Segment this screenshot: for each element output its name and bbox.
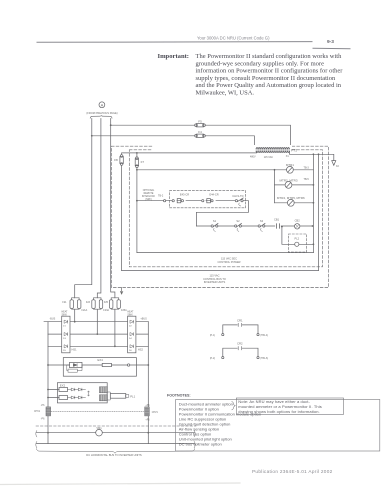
svg-text:supply types, consult Powermon: supply types, consult Powermonitor II do…	[196, 75, 336, 82]
wire EX2 feeds	[48, 390, 59, 398]
wire F4 rail	[92, 136, 255, 147]
wire secondary right to X2	[290, 151, 334, 160]
link CR2	[210, 342, 268, 360]
breaker contact CB1	[274, 217, 280, 228]
node junction right rail bus	[147, 432, 149, 434]
wire PL2 branch	[282, 227, 314, 245]
svg-text:S1: S1	[213, 219, 217, 223]
svg-text:Milwaukee, WI, USA.: Milwaukee, WI, USA.	[196, 90, 255, 97]
svg-text:CHV1-TD: CHV1-TD	[232, 194, 243, 198]
wire rung MTR4/5/6	[275, 202, 314, 204]
svg-text:-P6: -P6	[41, 418, 45, 420]
terminal EX4	[127, 364, 129, 366]
wire left DC rail	[47, 322, 49, 444]
wire bus2 vertical	[97, 119, 101, 298]
wire F8 drop to control bus	[121, 165, 123, 270]
svg-text:HEAT: HEAT	[127, 311, 134, 314]
svg-text:CR2: CR2	[237, 342, 243, 346]
svg-text:X2: X2	[336, 165, 340, 168]
diode EX2 upper pair	[68, 388, 86, 391]
svg-text:MTR4, MTR5, MTR6: MTR4, MTR5, MTR6	[277, 196, 305, 200]
page edge shadow	[0, 483, 240, 485]
node junction interlock tap	[136, 200, 138, 202]
svg-text:(TB1-4): (TB1-4)	[260, 335, 268, 337]
node junction pair1 out	[74, 321, 76, 323]
svg-text:+BUS: +BUS	[140, 318, 147, 321]
svg-text:F23A: F23A	[103, 309, 109, 312]
heat sink bar HS2	[128, 316, 136, 353]
connector block EX2 upper	[99, 387, 107, 393]
svg-text:F5: F5	[198, 120, 202, 124]
svg-text:F23: F23	[86, 301, 91, 304]
node junction EX4 right	[147, 364, 149, 366]
svg-text:F8: F8	[114, 158, 118, 162]
svg-text:(P-1): (P-1)	[210, 335, 215, 337]
svg-text:HS2: HS2	[138, 347, 144, 351]
svg-text:Important:: Important:	[158, 53, 190, 60]
label optional remote interlock	[142, 189, 156, 201]
wire DC horizontal bus line2	[37, 443, 195, 445]
wire CHV1 dotted link	[51, 411, 145, 413]
svg-text:DC bus voltmeter option: DC bus voltmeter option	[179, 442, 222, 447]
svg-text:EX2: EX2	[60, 383, 66, 387]
node junction pair3 out	[114, 345, 116, 347]
fuse F4	[195, 130, 206, 137]
svg-text:HS1: HS1	[72, 347, 78, 351]
transformer PT1	[250, 145, 297, 159]
svg-text:PL2: PL2	[294, 237, 299, 241]
node junction EX4 left	[47, 364, 49, 366]
dashed interlock box	[170, 191, 246, 208]
motor MTR2,MTR3	[280, 178, 298, 188]
node junction PL2 tap	[281, 226, 283, 228]
svg-text:information on Powermonitor II: information on Powermonitor II configura…	[196, 68, 344, 75]
svg-text:OPTIONAL: OPTIONAL	[143, 189, 155, 192]
fuse pair F23/F23A	[86, 298, 110, 334]
wire F5 rail	[111, 125, 291, 146]
svg-text:REMOTE: REMOTE	[144, 193, 154, 195]
svg-text:CHV1: CHV1	[34, 411, 41, 413]
svg-text:S3: S3	[260, 219, 264, 223]
svg-text:MTR1: MTR1	[286, 163, 294, 167]
svg-text:+P6: +P6	[145, 420, 150, 422]
svg-text:PL1: PL1	[130, 394, 135, 398]
svg-text:DC HORIZONTAL BUS TO INVERTER: DC HORIZONTAL BUS TO INVERTER UNITS	[86, 453, 142, 457]
relay contact E43-CR	[172, 192, 189, 202]
switch S3	[258, 219, 265, 231]
svg-text:INVERTER UNITS: INVERTER UNITS	[204, 280, 226, 284]
footnotes list	[179, 401, 261, 446]
node junction F4 tap	[91, 135, 93, 137]
svg-text:X1: X1	[286, 155, 290, 158]
wire EX4 through	[48, 364, 148, 366]
connector block EX2 lower	[99, 395, 107, 401]
svg-text:CB2: CB2	[295, 219, 301, 223]
svg-text:CB1: CB1	[274, 217, 280, 221]
wire DC line2	[48, 333, 148, 335]
svg-text:TB-5: TB-5	[304, 178, 310, 181]
svg-text:TB-3: TB-3	[304, 167, 310, 170]
diode EX4	[70, 362, 83, 367]
svg-text:CHV1: CHV1	[152, 412, 159, 414]
wire interlock return	[196, 201, 248, 226]
node junction rung2 right	[313, 184, 315, 186]
header rule	[37, 41, 312, 44]
bus continuation bracket left	[36, 431, 37, 448]
wire rung MTR2/3	[275, 184, 314, 186]
svg-text:F21: F21	[62, 301, 67, 304]
link CR1	[210, 319, 268, 337]
svg-text:9-3: 9-3	[327, 39, 334, 45]
svg-text:The Powermonitor II standard c: The Powermonitor II standard configurati…	[196, 53, 343, 60]
label HEAT SINK left	[62, 311, 69, 317]
svg-text:Your 3000A DC NRU (Current Cod: Your 3000A DC NRU (Current Code G)	[197, 36, 270, 41]
svg-text:F4: F4	[198, 130, 202, 134]
motor MTR4,MTR5,MTR6	[277, 196, 305, 206]
svg-text:Publication 2364E-5.01 April 2: Publication 2364E-5.01 April 2002	[252, 469, 333, 474]
wire inside interlock	[166, 200, 235, 202]
svg-text:TB-2: TB-2	[158, 195, 164, 198]
svg-text:HEAT: HEAT	[62, 311, 69, 314]
box EX2	[57, 383, 107, 403]
wire secondary left rail to F8	[122, 151, 257, 155]
brace over bus bundle	[90, 115, 112, 118]
fuse pair F21/F21A	[62, 298, 87, 322]
footnotes box	[176, 400, 380, 452]
svg-text:F21A: F21A	[82, 309, 88, 312]
fuse pair F25/F25A	[104, 298, 127, 347]
wire rung MTR1	[137, 169, 314, 171]
connector CHV1 right	[145, 405, 159, 422]
svg-text:-P6: -P6	[41, 405, 45, 407]
bus continuation bracket right	[194, 431, 195, 448]
Important paragraph	[196, 53, 344, 97]
node A	[99, 102, 105, 108]
motor MTR1	[286, 163, 294, 173]
svg-text:A: A	[101, 103, 104, 108]
fuse F7	[135, 153, 144, 168]
wire DC line1	[44, 321, 148, 323]
svg-text:INTERLOCK: INTERLOCK	[142, 196, 156, 198]
node junction left rail bus	[47, 432, 49, 434]
page number underline	[313, 47, 350, 50]
relay contact E44-CR	[202, 192, 219, 202]
box EX4	[63, 358, 136, 377]
svg-text:MTR2, MTR3: MTR2, MTR3	[280, 178, 298, 182]
note box	[236, 398, 343, 414]
plug PL1	[107, 392, 135, 400]
svg-text:S2: S2	[236, 219, 240, 223]
pilot device CB2	[295, 219, 301, 229]
terminal TB2	[164, 200, 166, 202]
node junction pair2 out	[96, 333, 98, 335]
svg-text:and the Power Quality and Auto: and the Power Quality and Automation gro…	[196, 82, 342, 89]
svg-text:F25: F25	[104, 301, 109, 304]
svg-text:EX4: EX4	[98, 358, 104, 362]
middle dashed enclosure	[129, 150, 322, 267]
footnote brace	[232, 402, 236, 410]
node junction rung1 left	[136, 169, 138, 171]
MOV block EX2 upper	[59, 388, 68, 392]
node junction EX2 feed2	[47, 397, 49, 399]
node junction PL2 right	[313, 243, 315, 245]
wire DC horizontal bus line1	[37, 432, 195, 434]
node junction EX2 feed1	[47, 389, 49, 391]
svg-text:CONTROL POWER: CONTROL POWER	[217, 260, 240, 264]
svg-text:F25A: F25A	[121, 309, 127, 312]
dashed option boundary	[36, 425, 196, 427]
resistor EX4 series	[102, 363, 111, 366]
svg-text:PT1: PT1	[291, 148, 297, 152]
switch S1	[211, 219, 218, 231]
heat sink bar HS1	[62, 316, 70, 353]
svg-text:480V: 480V	[250, 155, 256, 158]
timed contact CHV1-TD	[232, 194, 243, 206]
node junction motor sub-bus	[274, 169, 276, 171]
svg-text:(P-2): (P-2)	[210, 358, 215, 360]
node junction rung3 right	[313, 202, 315, 204]
svg-text:CR1: CR1	[237, 319, 243, 323]
svg-text:+P6: +P6	[145, 405, 150, 407]
pilot light PL2	[294, 237, 299, 247]
switch S2	[235, 219, 242, 231]
fuse F8	[114, 155, 123, 166]
svg-text:E44-CR: E44-CR	[209, 192, 218, 196]
outer dashed enclosure	[111, 146, 328, 287]
wire motor sub-bus vertical	[274, 170, 276, 203]
wire switch rung	[196, 225, 313, 227]
bus exit arrow	[120, 288, 122, 295]
ground flag X2	[332, 161, 340, 168]
wire right rail	[312, 154, 314, 252]
svg-text:FOOTNOTES:: FOOTNOTES:	[167, 393, 191, 397]
connector CHV1 left	[34, 405, 51, 421]
svg-text:F7: F7	[141, 160, 145, 164]
arrow EX2 center	[88, 391, 90, 396]
wire interlock rung lead	[137, 200, 164, 202]
svg-text:(TB1-6): (TB1-6)	[260, 358, 268, 360]
node junction control bus right top	[318, 153, 320, 155]
underbrace DC bus	[37, 449, 195, 454]
wire bottom rail	[137, 252, 314, 254]
svg-text:drawing shows both options for: drawing shows both options for informati…	[238, 409, 319, 414]
MOV block EX2 lower	[59, 396, 68, 400]
node junction CB2 right	[312, 225, 314, 227]
wire control bus horizontal	[122, 270, 319, 272]
wire control bus right vertical	[318, 154, 320, 270]
voltmeter VM1	[96, 426, 103, 436]
wire bus3 vertical	[111, 119, 115, 298]
wire left rail	[136, 168, 138, 253]
svg-text:E43-CR: E43-CR	[180, 192, 189, 196]
dashed box PL2 option	[288, 234, 306, 252]
wire bus1 vertical	[75, 119, 92, 298]
node junction F5 tap	[110, 124, 112, 126]
svg-text:115 VAC: 115 VAC	[264, 156, 273, 159]
label HEAT SINK right	[127, 311, 134, 317]
svg-text:VM1: VM1	[96, 426, 102, 430]
fuse F5	[195, 120, 206, 127]
node junction right rail top	[313, 153, 315, 155]
diode EX2 lower pair	[68, 396, 86, 399]
svg-text:-BUS: -BUS	[50, 318, 56, 321]
wire DC line3	[48, 345, 148, 347]
node junction F7 top	[136, 152, 138, 154]
svg-text:grounded-wye secondary supplie: grounded-wye secondary supplies only. Fo…	[196, 60, 325, 67]
wire right DC rail	[147, 322, 149, 444]
svg-text:(FROM PREVIOUS PAGE): (FROM PREVIOUS PAGE)	[86, 111, 117, 115]
resistor EX4 shunt	[67, 365, 82, 372]
